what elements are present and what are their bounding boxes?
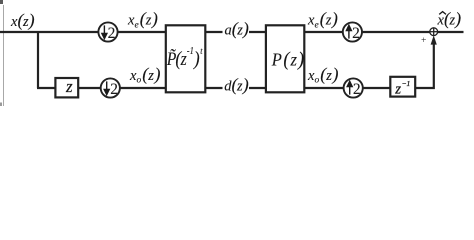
svg-text:xe(z): xe(z) bbox=[127, 9, 158, 31]
svg-text:2: 2 bbox=[110, 81, 118, 98]
svg-text:xo(z): xo(z) bbox=[129, 64, 160, 86]
svg-text:2: 2 bbox=[108, 25, 116, 42]
svg-text:P̃(z-1)t: P̃(z-1)t bbox=[166, 45, 203, 70]
svg-text:x(z): x(z) bbox=[437, 9, 462, 30]
svg-text:xo(z): xo(z) bbox=[307, 64, 338, 86]
svg-text:xe(z): xe(z) bbox=[307, 9, 338, 31]
svg-text:x(z): x(z) bbox=[10, 10, 35, 31]
svg-text:2: 2 bbox=[352, 25, 360, 42]
svg-text:d(z): d(z) bbox=[224, 75, 248, 96]
svg-text:P(z): P(z) bbox=[271, 49, 304, 71]
svg-text:2: 2 bbox=[353, 81, 361, 98]
svg-text:z: z bbox=[65, 77, 73, 96]
svg-text:a(z): a(z) bbox=[225, 19, 249, 40]
svg-text:+: + bbox=[421, 36, 426, 46]
